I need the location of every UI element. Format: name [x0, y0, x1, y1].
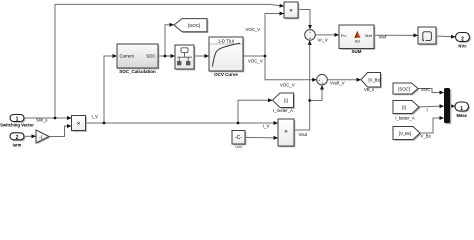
svg-text:Vout: Vout: [299, 132, 308, 137]
svg-text:I_meter_A: I_meter_A: [273, 108, 293, 113]
svg-text:SW_s: SW_s: [36, 117, 47, 122]
svg-text:[SOC]: [SOC]: [398, 87, 410, 92]
svg-text:VOC_V: VOC_V: [248, 58, 263, 63]
svg-text:+: +: [318, 78, 320, 82]
svg-text:SUM: SUM: [352, 49, 362, 54]
svg-text:-C-: -C-: [235, 135, 242, 141]
svg-text:Vref: Vref: [379, 34, 388, 39]
svg-text:[I]: [I]: [284, 98, 288, 103]
svg-text:V_Bs: V_Bs: [421, 133, 431, 138]
svg-text:Vc_V: Vc_V: [318, 37, 328, 42]
svg-text:SOC: SOC: [146, 54, 155, 59]
svg-text:Current: Current: [120, 54, 135, 59]
svg-text:SOC_Calculation: SOC_Calculation: [119, 69, 156, 74]
svg-text:2: 2: [461, 36, 464, 42]
svg-text:[V_Bs]: [V_Bs]: [368, 78, 380, 83]
svg-text:[V_Bs]: [V_Bs]: [399, 131, 411, 136]
svg-text:fcn: fcn: [355, 40, 360, 44]
svg-text:-1: -1: [39, 134, 43, 139]
svg-text:×: ×: [284, 129, 288, 136]
svg-text:+: +: [309, 31, 311, 35]
svg-text:I_V: I_V: [92, 114, 99, 119]
svg-text:VOC_V: VOC_V: [280, 82, 295, 87]
svg-text:Switching Vector: Switching Vector: [0, 123, 34, 128]
svg-text:Meas: Meas: [456, 113, 467, 118]
svg-text:I_batter_A: I_batter_A: [395, 115, 415, 120]
svg-text:2: 2: [16, 135, 19, 141]
svg-text:×: ×: [289, 8, 293, 15]
svg-text:+: +: [309, 37, 311, 41]
svg-text:OCV Curve: OCV Curve: [214, 72, 238, 77]
svg-text:×: ×: [77, 121, 81, 128]
svg-text:VOC_V: VOC_V: [246, 27, 261, 32]
svg-text:I_V: I_V: [263, 124, 270, 129]
svg-text:NVc: NVc: [458, 44, 467, 49]
svg-text:1: 1: [460, 106, 463, 112]
svg-text:Vdc: Vdc: [235, 145, 242, 148]
svg-text:I: I: [427, 107, 428, 112]
svg-text:Fu: Fu: [341, 33, 346, 38]
svg-text:Iarm: Iarm: [13, 142, 22, 147]
svg-text:Vcell_V: Vcell_V: [330, 81, 345, 86]
svg-text:SOC: SOC: [421, 87, 430, 92]
svg-text:+: +: [322, 81, 324, 85]
svg-text:VB_s: VB_s: [364, 87, 374, 92]
svg-text:1-D T(u): 1-D T(u): [218, 39, 235, 44]
svg-text:[I]: [I]: [402, 105, 406, 110]
svg-text:[SOC]: [SOC]: [188, 23, 200, 28]
svg-text:Vref: Vref: [365, 33, 373, 38]
